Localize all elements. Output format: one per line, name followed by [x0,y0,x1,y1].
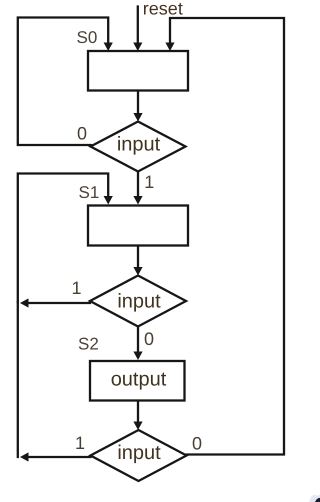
wire loop2 horizontal and arrow into S1 [18,174,108,303]
wire S0 to D1 [137,91,139,115]
arrowhead S2 to D3 [133,422,142,431]
wire loop2 vertical lower part down to D3 branch [17,302,19,457]
svg-text:input: input [117,291,161,313]
arrowhead right loop into S0 [165,43,174,52]
svg-text:input: input [117,442,161,464]
decision diamond D3 [91,430,187,481]
wire D2 to S2 [137,327,139,353]
arrowhead loop1 into S0 [104,43,113,52]
state box S2 (output) [90,361,185,401]
arrowhead D2 "1" into left rail [20,298,29,307]
svg-text:S1: S1 [79,183,100,202]
arrowhead loop2 into S1 [104,196,113,205]
svg-text:0: 0 [77,124,87,144]
wire reset vertical into S0 [137,7,139,45]
arrowhead D2 to S2 [133,352,142,361]
decision diamond D1 [91,122,186,172]
wire right loop: D3 "0" branch up into S0 [170,18,284,455]
bottom-right corner artifact mark [309,494,320,502]
state box S1 [88,206,188,246]
svg-text:output: output [111,369,167,391]
svg-text:1: 1 [144,172,154,192]
arrowhead S0 to D1 [133,113,142,122]
decision diamond D2 [90,276,186,327]
wire D1 to S1 [137,172,139,198]
svg-text:S2: S2 [78,335,99,354]
svg-text:1: 1 [75,433,85,453]
svg-text:S0: S0 [77,28,98,47]
svg-text:input: input [117,134,161,156]
svg-text:0: 0 [192,434,202,454]
svg-text:0: 0 [144,329,154,349]
wire D3 "1" branch to left [28,456,91,458]
arrowhead reset into S0 [133,43,142,52]
wire S1 to D2 [137,246,139,269]
wire D2 "1" branch to left [28,302,90,304]
state box S0 [88,51,188,91]
arrowhead D1 to S1 [133,196,142,205]
arrowhead S1 to D2 [133,267,142,276]
wire loop1: D1 "0" branch left/up/right into S0 [18,18,108,146]
svg-text:reset: reset [143,0,183,19]
arrowhead D3 "1" into left rail [20,452,29,461]
svg-text:1: 1 [72,278,82,298]
wire S2 to D3 [137,401,139,423]
